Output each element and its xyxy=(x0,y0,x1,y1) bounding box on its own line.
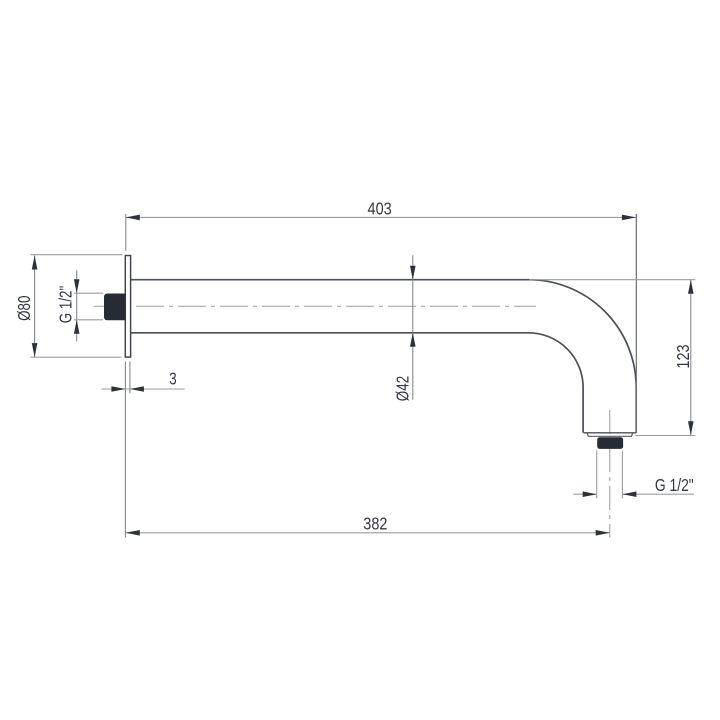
dim G1/2 wall: dimension line xyxy=(76,270,78,341)
wall flange xyxy=(125,256,130,358)
svg-text:123: 123 xyxy=(673,344,693,368)
dim G1/2 outlet: left arrowhead (points right) xyxy=(583,491,597,497)
dim 3: right arrowhead (points left) xyxy=(130,386,144,392)
dim 123: bottom extension line xyxy=(636,435,696,437)
dim Ø80: bottom arrowhead xyxy=(32,343,38,357)
dim Ø42: dimension line xyxy=(412,255,414,399)
wall thread G1/2 (black) xyxy=(104,294,126,321)
dim 3: left extension line (flange left edge extended) xyxy=(124,362,126,538)
svg-text:G 1/2": G 1/2" xyxy=(655,475,694,495)
dim G1/2 outlet: left dimension line xyxy=(573,493,596,495)
dim Ø80: top arrowhead xyxy=(32,256,38,270)
dim 123: top extension line xyxy=(529,279,695,281)
dim Ø42: upper arrowhead (points down to tube top) xyxy=(410,266,416,280)
dim 403: left arrowhead xyxy=(126,215,140,221)
dim G1/2 wall: upper arrowhead (points down) xyxy=(74,279,80,293)
svg-text:Ø42: Ø42 xyxy=(392,376,412,401)
dim 123: bottom arrowhead xyxy=(688,421,694,435)
dim G1/2 wall: top extension line xyxy=(74,292,103,294)
dim Ø42: lower arrowhead (points up to tube bottom) xyxy=(410,333,416,347)
dim G1/2 outlet: left extension line xyxy=(596,451,598,499)
dim 382: right arrowhead xyxy=(596,530,610,536)
dim 403: right arrowhead xyxy=(622,215,636,221)
dim Ø80: bottom extension line xyxy=(31,356,122,358)
dim 403: dimension line xyxy=(126,216,636,218)
dim G1/2 outlet: right extension line xyxy=(621,451,623,499)
svg-text:G 1/2": G 1/2" xyxy=(56,286,76,324)
dim 123: top arrowhead xyxy=(688,280,694,294)
dim 3: left arrowhead (points right) xyxy=(111,386,125,392)
svg-text:382: 382 xyxy=(363,513,387,533)
centerline vertical (outlet axis) xyxy=(609,410,611,538)
dim Ø80: top extension line xyxy=(31,254,123,256)
shower arm tube outline xyxy=(131,280,637,433)
svg-text:403: 403 xyxy=(368,199,392,219)
dim 403: right extension line xyxy=(635,214,637,433)
dim G1/2 outlet: right arrowhead (points left) xyxy=(622,491,636,497)
dim 3: right extension line (flange right edge extended) xyxy=(129,362,131,394)
dim 382: dimension line xyxy=(126,532,610,534)
centerline horizontal (tube axis) xyxy=(94,305,536,307)
dim G1/2 wall: bottom extension line xyxy=(74,319,103,321)
tube end cap xyxy=(587,433,632,436)
dim 3: dimension line xyxy=(101,388,184,390)
dim 382: left arrowhead xyxy=(126,530,140,536)
dim G1/2 outlet: right dimension line xyxy=(622,493,694,495)
dim Ø80: dimension line xyxy=(34,256,36,358)
tube end shoulder xyxy=(584,432,637,434)
outlet thread G1/2 (black) xyxy=(597,437,623,449)
dim 403: left extension line xyxy=(125,214,127,251)
dim G1/2 wall: lower arrowhead (points up) xyxy=(74,320,80,334)
dim 123: dimension line xyxy=(690,280,692,436)
svg-text:3: 3 xyxy=(169,368,177,388)
svg-text:Ø80: Ø80 xyxy=(14,295,34,321)
